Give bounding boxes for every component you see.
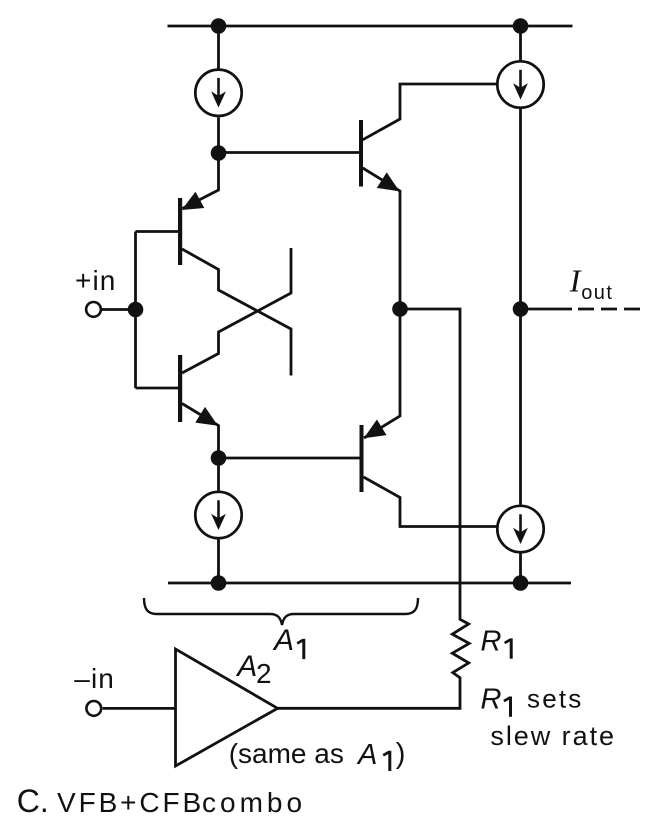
svg-text:A: A (356, 739, 377, 771)
svg-text:out: out (581, 282, 613, 304)
svg-text:+in: +in (75, 265, 116, 296)
svg-text:R: R (481, 625, 502, 657)
svg-text:A: A (235, 650, 257, 683)
svg-text:A: A (272, 624, 294, 657)
svg-text:C.: C. (17, 783, 49, 819)
svg-text:combo: combo (202, 787, 306, 818)
svg-text:): ) (396, 738, 406, 770)
svg-text:–in: –in (74, 663, 115, 694)
svg-text:R: R (481, 683, 502, 715)
svg-text:VFB+CFB: VFB+CFB (57, 787, 204, 818)
svg-text:sets: sets (527, 683, 583, 713)
svg-text:I: I (569, 262, 582, 298)
svg-text:slew rate: slew rate (490, 721, 616, 751)
svg-text:2: 2 (256, 658, 272, 689)
svg-text:(same as: (same as (229, 738, 344, 769)
